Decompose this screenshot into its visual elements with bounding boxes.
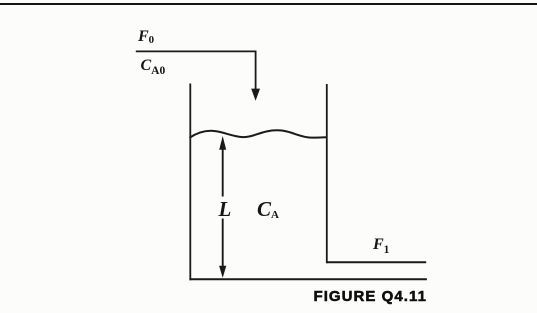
arrowhead down (219, 266, 226, 278)
label CA0 (141, 58, 166, 74)
tank bottom (189, 278, 427, 280)
tank right wall (326, 84, 328, 263)
level arrow L (vertical, split around label) (222, 147, 224, 197)
outlet channel top line F1 (327, 261, 426, 263)
feed arrowhead (251, 89, 260, 101)
label F1 (373, 237, 389, 253)
top page rule (0, 3, 537, 5)
tank left wall (189, 84, 191, 281)
liquid surface wave (190, 130, 327, 138)
arrowhead up (219, 136, 226, 150)
label CA (257, 199, 279, 220)
wire feed line F0 with corner (136, 51, 256, 89)
caption FIGURE Q4.11 (314, 289, 427, 304)
label L (219, 199, 232, 220)
label F0 (138, 29, 154, 45)
